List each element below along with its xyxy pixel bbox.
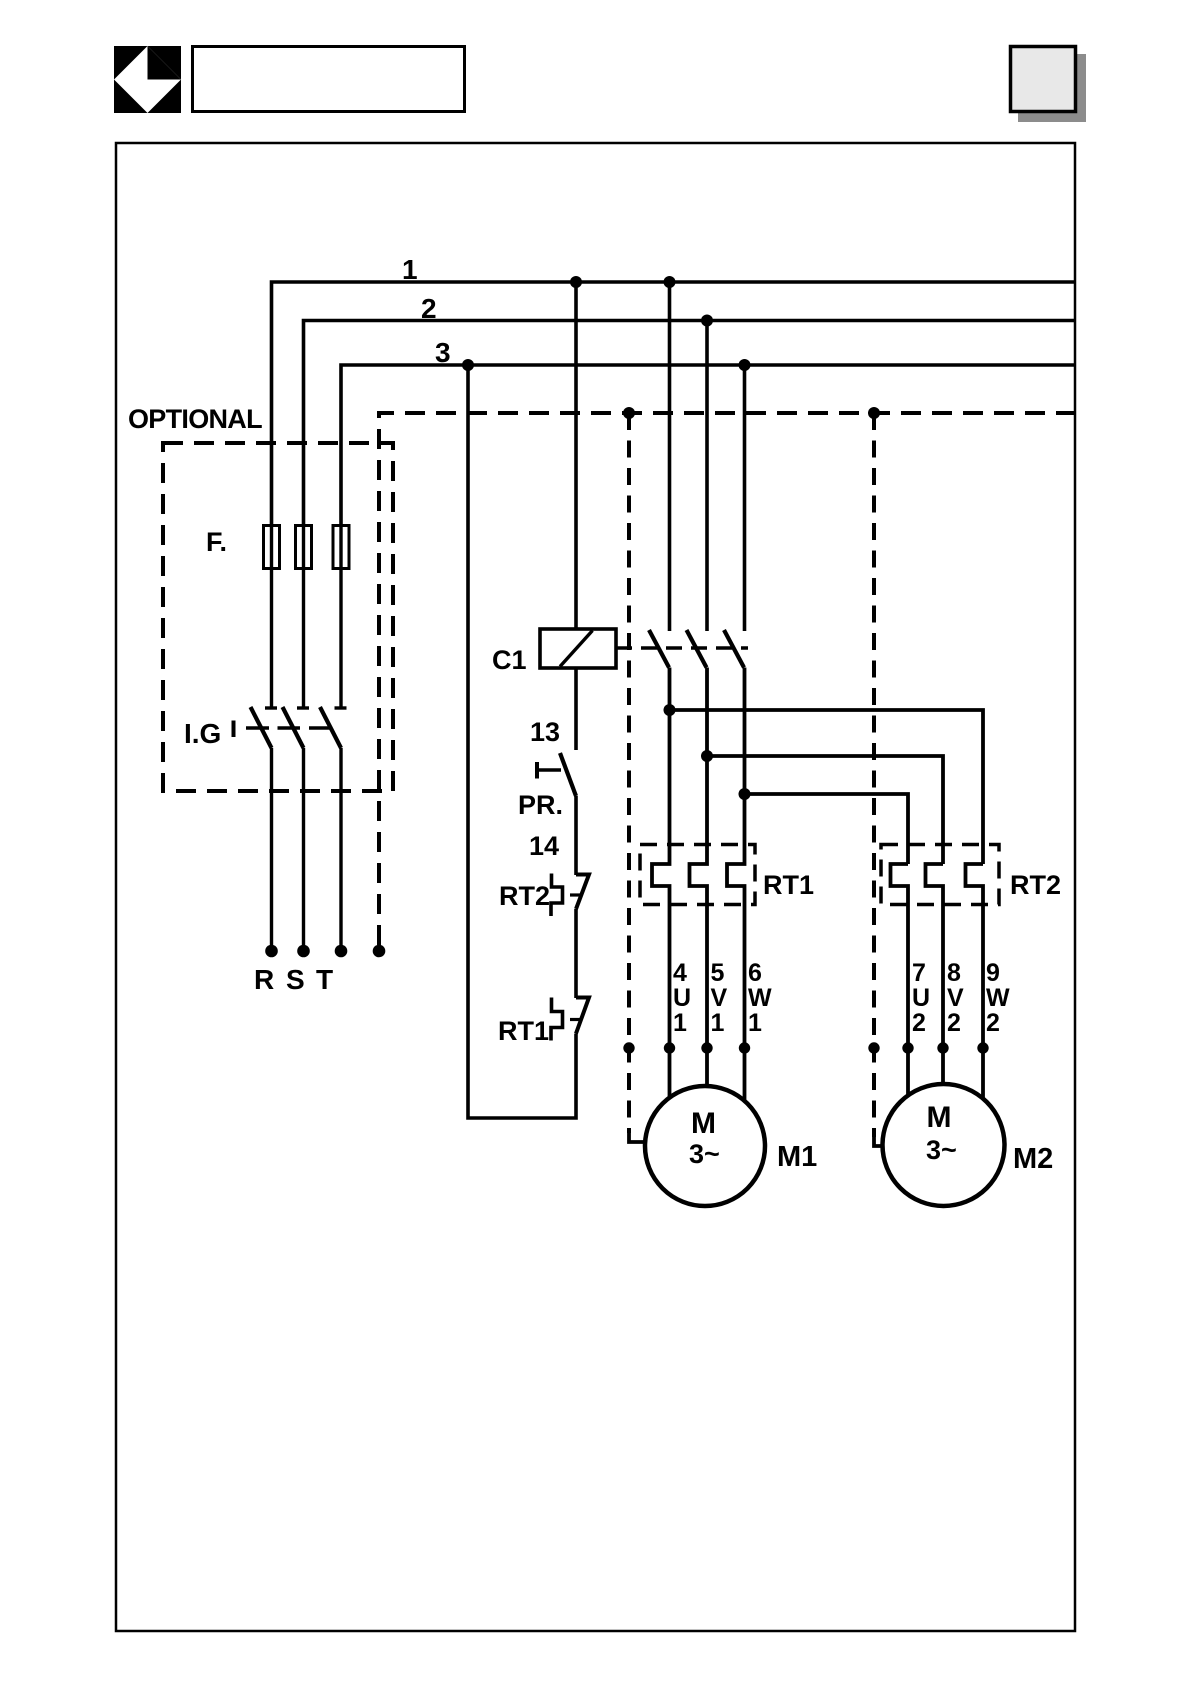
- svg-text:OPTIONAL: OPTIONAL: [128, 404, 262, 434]
- fuse F pole 1: [264, 526, 280, 569]
- wire phase T lower: [339, 748, 342, 948]
- wire phase S upper: [302, 526, 305, 708]
- wire M2 phase1 with RT2 heater detour: [891, 864, 909, 1100]
- terminal T: [335, 945, 348, 958]
- svg-text:T: T: [316, 964, 333, 995]
- schematic frame: [116, 143, 1075, 1631]
- svg-text:9: 9: [986, 959, 1000, 987]
- svg-text:M: M: [691, 1107, 716, 1140]
- svg-text:3~: 3~: [926, 1135, 957, 1165]
- wire pole1 branch to M2: [670, 710, 984, 864]
- motor M2: [883, 1084, 1005, 1206]
- wire M2 phase2 with RT2 heater detour: [926, 864, 944, 1086]
- phase bus line 2: [304, 321, 1077, 527]
- svg-text:3: 3: [435, 337, 451, 368]
- motor M1: [645, 1086, 765, 1206]
- wire line2 to contactor pole2: [705, 321, 709, 632]
- svg-text:V: V: [947, 984, 964, 1012]
- corner tab shadow: [1018, 54, 1086, 122]
- wire pole3 with RT1 heater detour: [727, 668, 745, 1104]
- svg-text:M1: M1: [777, 1141, 817, 1173]
- node M1 dashed: [623, 1042, 634, 1053]
- svg-text:5: 5: [711, 959, 725, 987]
- svg-text:F.: F.: [206, 527, 227, 557]
- dashed wire to M1: [627, 413, 631, 1133]
- svg-text:C1: C1: [492, 645, 527, 675]
- svg-text:13: 13: [530, 717, 560, 747]
- svg-text:RT2: RT2: [1010, 870, 1061, 900]
- pressure switch PR contact: [537, 753, 576, 796]
- wire line1 to C1 coil: [574, 282, 578, 629]
- phase bus line 3: [341, 365, 1076, 526]
- svg-text:V: V: [711, 984, 728, 1012]
- contact RT2 (NC): [551, 874, 589, 917]
- svg-text:1: 1: [402, 254, 418, 285]
- svg-text:W: W: [986, 984, 1010, 1012]
- node pole2 branch: [701, 750, 713, 762]
- optional dashed box: [163, 443, 393, 791]
- wire C1 to contact 13: [574, 668, 578, 750]
- svg-text:R: R: [254, 964, 274, 995]
- svg-text:6: 6: [748, 959, 762, 987]
- switch I.G pole 1: [251, 707, 278, 748]
- corner tab: [1011, 47, 1076, 112]
- svg-text:M2: M2: [1013, 1143, 1053, 1175]
- svg-text:W: W: [748, 984, 772, 1012]
- svg-text:2: 2: [421, 293, 437, 324]
- contactor C1 pole 3 blade: [724, 630, 744, 668]
- wire contact 14 to RT2: [574, 796, 578, 875]
- contactor C1 pole 1 blade: [649, 630, 669, 668]
- svg-text:1: 1: [748, 1009, 762, 1037]
- svg-text:1: 1: [673, 1009, 687, 1037]
- svg-text:2: 2: [912, 1009, 926, 1037]
- wire line3 to contactor pole3: [743, 365, 747, 631]
- node M2 V2: [937, 1042, 948, 1053]
- overload RT2 dashed box: [881, 845, 999, 905]
- svg-text:3~: 3~: [689, 1139, 720, 1169]
- node pole3 branch: [739, 788, 751, 800]
- svg-text:PR.: PR.: [518, 790, 563, 820]
- svg-text:S: S: [286, 964, 305, 995]
- phase bus line 1: [272, 282, 1077, 526]
- node M2 U2: [902, 1042, 913, 1053]
- switch I.G actuator tick: [232, 721, 236, 738]
- svg-text:7: 7: [912, 959, 926, 987]
- svg-text:U: U: [673, 984, 691, 1012]
- contactor C1 link (dashed): [616, 646, 748, 650]
- wire phase R lower: [270, 748, 273, 948]
- wire control return loop: [468, 365, 576, 1118]
- dashed wire M2 end: [874, 1135, 885, 1146]
- node line3 return: [462, 359, 474, 371]
- svg-text:4: 4: [673, 959, 687, 987]
- dashed control bus: [379, 413, 1076, 946]
- svg-text:RT1: RT1: [498, 1016, 549, 1046]
- wire RT2 to RT1: [574, 909, 578, 998]
- node M1 V1: [701, 1042, 712, 1053]
- svg-text:M: M: [927, 1101, 952, 1134]
- terminal optional: [373, 945, 386, 958]
- wire phase R upper: [270, 526, 273, 708]
- svg-text:2: 2: [947, 1009, 961, 1037]
- svg-text:8: 8: [947, 959, 961, 987]
- wire pole1 with RT1 heater detour: [652, 668, 670, 1104]
- contactor C1 pole 2 blade: [687, 630, 707, 668]
- terminal S: [297, 945, 310, 958]
- svg-text:1: 1: [711, 1009, 725, 1037]
- switch I.G pole 2: [283, 707, 310, 748]
- switch I.G pole 3: [320, 707, 347, 748]
- wire pole3 branch to M2: [745, 794, 909, 864]
- node dashed bus M2: [868, 407, 880, 419]
- node M1 W1: [739, 1042, 750, 1053]
- wire M2 phase3 with RT2 heater detour: [966, 864, 984, 1100]
- svg-text:2: 2: [986, 1009, 1000, 1037]
- fuse F pole 2: [296, 526, 312, 569]
- title box: [193, 47, 465, 112]
- node pole1 branch: [664, 704, 676, 716]
- node line2 pole2: [701, 315, 713, 327]
- node M2 W2: [977, 1042, 988, 1053]
- svg-text:14: 14: [529, 831, 559, 861]
- fuse F pole 3: [333, 526, 349, 569]
- terminal R: [265, 945, 278, 958]
- overload RT1 dashed box: [640, 845, 755, 905]
- node M2 dashed: [868, 1042, 879, 1053]
- node dashed bus M1: [623, 407, 635, 419]
- contactor coil C1: [540, 629, 616, 668]
- switch I.G link bar: [246, 726, 332, 730]
- node line1-C1: [570, 276, 582, 288]
- svg-text:U: U: [912, 984, 930, 1012]
- svg-text:RT1: RT1: [763, 870, 814, 900]
- node M1 U1: [664, 1042, 675, 1053]
- svg-text:I.G: I.G: [184, 718, 221, 749]
- contact RT1 (NC): [551, 998, 589, 1041]
- node line1 pole1: [664, 276, 676, 288]
- wire phase S lower: [302, 748, 305, 948]
- wire pole2 with RT1 heater detour: [690, 668, 708, 1088]
- logo mark: [114, 46, 181, 113]
- dashed wire M1 end: [629, 1131, 646, 1142]
- node line3 pole3: [739, 359, 751, 371]
- dashed wire to M2: [872, 413, 876, 1137]
- svg-text:RT2: RT2: [499, 881, 550, 911]
- wire pole2 branch to M2: [707, 756, 943, 864]
- wire line1 to contactor pole1: [668, 282, 672, 631]
- wire phase T upper: [339, 526, 342, 708]
